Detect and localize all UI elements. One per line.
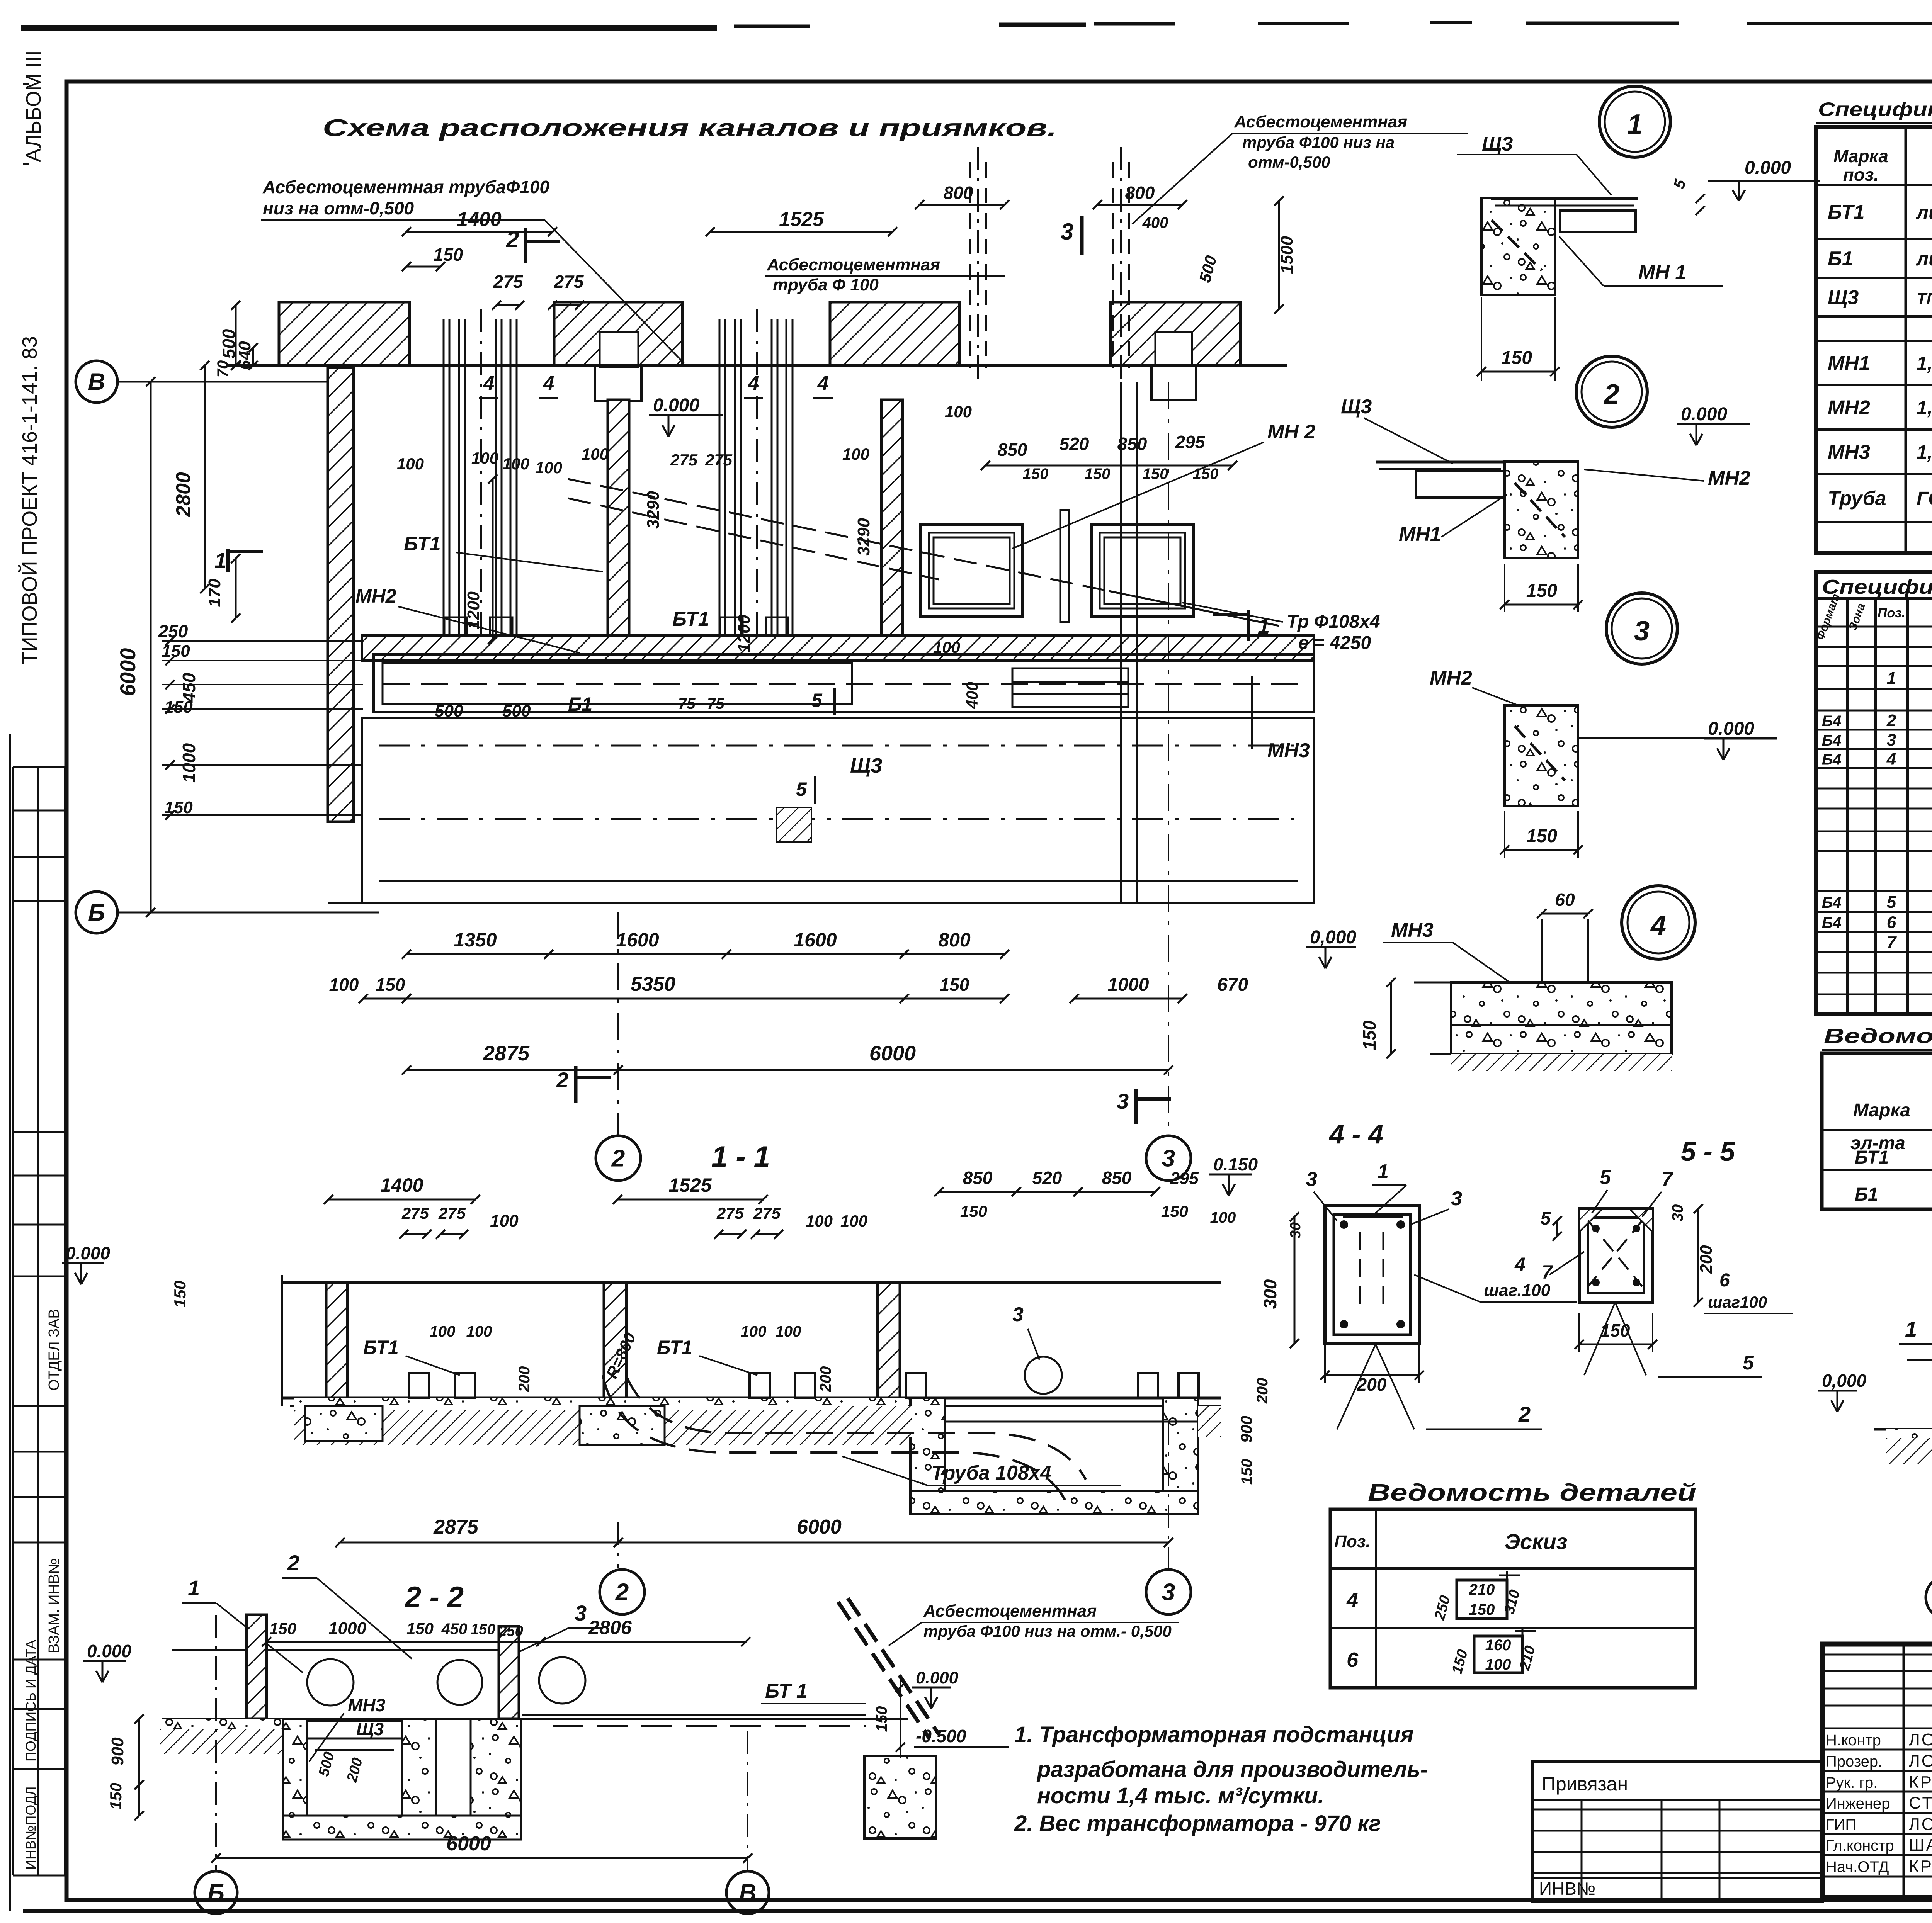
svg-text:4: 4 [817,372,829,395]
svg-text:1: 1 [188,1576,200,1600]
svg-text:850: 850 [998,440,1027,460]
svg-text:5: 5 [1541,1208,1551,1229]
svg-text:1500: 1500 [1277,236,1296,274]
svg-text:ГИП: ГИП [1826,1816,1856,1833]
svg-text:275: 275 [705,451,733,469]
svg-text:1600: 1600 [616,929,659,951]
svg-text:450: 450 [441,1621,468,1638]
svg-text:60: 60 [1555,890,1575,910]
svg-text:БТ1: БТ1 [1828,201,1865,224]
svg-text:6000: 6000 [797,1516,842,1538]
svg-text:2. Вес трансформатора - 970 к: 2. Вес трансформатора - 970 кг [1014,1811,1381,1836]
svg-text:295: 295 [1175,432,1206,452]
svg-text:295: 295 [1170,1169,1199,1188]
svg-text:ности 1,4 тыс. м³/сутки.: ности 1,4 тыс. м³/сутки. [1037,1783,1324,1808]
svg-text:300: 300 [1260,1279,1280,1309]
svg-text:6000: 6000 [446,1833,491,1855]
svg-text:2: 2 [506,226,519,252]
svg-text:2: 2 [1603,379,1619,410]
svg-text:2 - 2: 2 - 2 [404,1581,464,1614]
svg-text:Рук. гр.: Рук. гр. [1826,1774,1878,1791]
svg-text:150: 150 [1526,826,1557,846]
svg-text:100: 100 [945,403,972,421]
svg-text:Привязан: Привязан [1542,1773,1628,1795]
svg-text:Марка: Марка [1833,146,1888,166]
svg-text:1400: 1400 [380,1174,423,1196]
svg-text:МН 1: МН 1 [1638,261,1686,284]
svg-text:100: 100 [1485,1656,1511,1673]
svg-text:0.000: 0.000 [653,395,699,416]
svg-text:Б4: Б4 [1822,732,1842,749]
svg-text:520: 520 [1060,434,1089,454]
svg-text:30: 30 [1669,1204,1686,1222]
svg-text:ШАПИРО: ШАПИРО [1909,1836,1932,1855]
svg-text:МН2: МН2 [1430,667,1472,689]
svg-text:4: 4 [543,372,554,395]
svg-text:0.000: 0.000 [66,1243,111,1263]
svg-text:Труба: Труба [1828,488,1886,510]
svg-text:5350: 5350 [631,973,675,995]
svg-text:МН3: МН3 [1267,739,1310,762]
svg-text:Асбестоцементная: Асбестоцементная [1234,112,1407,131]
svg-text:Спецификация элементов к схеме: Спецификация элементов к схеме расположе… [1818,99,1932,120]
svg-text:Б1: Б1 [1855,1184,1878,1205]
svg-text:100: 100 [806,1212,833,1230]
svg-text:6000: 6000 [116,648,140,696]
svg-text:150: 150 [1600,1320,1630,1340]
svg-text:100: 100 [490,1211,519,1230]
svg-text:100: 100 [741,1323,767,1340]
svg-text:ЛОУЦКЕР: ЛОУЦКЕР [1909,1730,1932,1749]
svg-text:150: 150 [164,698,193,717]
svg-text:150: 150 [960,1202,987,1220]
svg-text:ТИПОВОЙ ПРОЕКТ 416-1-141. 83: ТИПОВОЙ ПРОЕКТ 416-1-141. 83 [18,336,41,664]
svg-text:труба Ф100 низ на: труба Ф100 низ на [1242,133,1395,151]
svg-text:Б4: Б4 [1822,713,1842,730]
svg-text:ПОДПИСЬ И ДАТА: ПОДПИСЬ И ДАТА [23,1640,39,1762]
svg-text:150: 150 [406,1619,434,1638]
svg-text:170: 170 [205,579,224,607]
svg-text:1000: 1000 [179,743,199,783]
svg-text:800: 800 [944,183,973,203]
svg-text:4: 4 [1886,750,1896,769]
svg-text:1. Трансформаторная подстанци: 1. Трансформаторная подстанция [1014,1722,1413,1747]
svg-text:Щ3: Щ3 [850,754,882,777]
svg-text:1200: 1200 [464,591,483,629]
svg-text:МН 2: МН 2 [1267,421,1315,443]
svg-text:Нач.ОТД: Нач.ОТД [1826,1858,1889,1875]
svg-text:1: 1 [1887,669,1896,688]
svg-text:850: 850 [963,1168,993,1188]
svg-text:275: 275 [401,1204,429,1222]
svg-text:100: 100 [933,638,960,656]
svg-text:БТ1: БТ1 [657,1337,692,1358]
svg-text:4: 4 [1514,1254,1526,1275]
svg-text:3: 3 [1887,730,1896,749]
svg-text:2806: 2806 [588,1617,632,1638]
svg-text:275: 275 [670,451,698,469]
svg-text:250: 250 [498,1623,523,1639]
svg-text:4: 4 [483,372,495,395]
svg-text:Б: Б [88,900,105,926]
svg-text:150: 150 [1023,465,1049,482]
svg-text:150: 150 [471,1621,495,1638]
svg-text:2: 2 [1886,711,1896,730]
svg-text:Б4: Б4 [1822,915,1842,932]
svg-text:75: 75 [678,695,696,712]
svg-text:0.000: 0.000 [1708,719,1754,739]
svg-text:1000: 1000 [328,1619,366,1638]
svg-text:отм-0,500: отм-0,500 [1248,153,1330,171]
svg-text:100: 100 [502,455,529,473]
svg-text:Щ3: Щ3 [1341,396,1372,418]
svg-text:150: 150 [1193,465,1219,482]
svg-text:100: 100 [471,449,498,467]
svg-text:5: 5 [1887,893,1896,912]
svg-text:800: 800 [1125,183,1155,203]
svg-text:5: 5 [1743,1352,1754,1374]
svg-text:500: 500 [502,702,531,720]
svg-text:2: 2 [1518,1402,1531,1426]
svg-text:БТ1: БТ1 [672,608,709,630]
svg-text:Асбестоцементная: Асбестоцементная [767,255,940,274]
svg-text:1000: 1000 [1108,975,1149,995]
svg-text:0.000: 0.000 [1745,158,1791,178]
svg-text:850: 850 [1102,1168,1132,1188]
svg-text:МН1: МН1 [1399,523,1441,545]
svg-text:275: 275 [493,272,524,292]
svg-text:3290: 3290 [854,518,873,556]
svg-text:150: 150 [107,1783,125,1810]
svg-text:1525: 1525 [779,208,824,231]
svg-text:500: 500 [435,702,463,720]
svg-text:6: 6 [1887,913,1896,932]
svg-text:МН3: МН3 [348,1695,386,1715]
svg-text:900: 900 [1237,1416,1255,1443]
svg-text:МН2: МН2 [1708,467,1750,489]
svg-text:Гл.констр: Гл.констр [1826,1837,1894,1854]
svg-text:2: 2 [556,1068,568,1092]
svg-text:3: 3 [1012,1303,1024,1326]
svg-text:1 - 1: 1 - 1 [711,1140,770,1173]
svg-text:5: 5 [796,778,807,800]
svg-text:800: 800 [938,929,971,951]
svg-text:6: 6 [1347,1648,1359,1672]
svg-text:Щ3: Щ3 [356,1719,384,1739]
svg-text:200: 200 [1357,1374,1387,1395]
svg-text:АЛЬБОМ III: АЛЬБОМ III [22,50,45,162]
svg-text:160: 160 [1485,1637,1511,1654]
svg-text:1350: 1350 [454,929,497,951]
svg-text:100: 100 [535,459,562,477]
svg-text:150: 150 [171,1281,189,1308]
svg-text:Асбестоцементная: Асбестоцементная [923,1602,1097,1621]
svg-text:150: 150 [269,1619,296,1638]
svg-text:100: 100 [466,1323,492,1340]
svg-text:1: 1 [214,548,226,572]
svg-text:шаг.100: шаг.100 [1484,1281,1551,1300]
svg-text:30: 30 [1287,1222,1304,1238]
svg-text:е = 4250: е = 4250 [1298,633,1371,653]
svg-text:Асбестоцементная трубаФ100: Асбестоцементная трубаФ100 [262,177,549,197]
svg-text:ИНВ№ПОДЛ: ИНВ№ПОДЛ [23,1786,39,1870]
svg-text:150: 150 [376,975,405,995]
svg-text:4: 4 [1650,910,1666,941]
svg-text:150: 150 [1526,581,1557,601]
svg-text:1,400-15В1.550-06: 1,400-15В1.550-06 [1917,353,1932,374]
svg-text:1: 1 [1627,109,1643,140]
svg-text:Б1: Б1 [568,693,592,715]
svg-text:шаг100: шаг100 [1708,1293,1767,1311]
svg-text:0.000: 0.000 [87,1641,132,1661]
svg-text:4: 4 [1346,1588,1358,1612]
svg-text:Б: Б [207,1880,224,1906]
svg-text:100: 100 [1210,1209,1236,1226]
svg-text:150: 150 [1143,465,1168,482]
svg-text:150: 150 [873,1706,890,1732]
svg-text:2875: 2875 [483,1042,530,1065]
svg-text:0.000: 0.000 [916,1668,959,1687]
svg-text:400: 400 [963,682,981,709]
svg-text:ЛОУЦКЕР: ЛОУЦКЕР [1909,1815,1932,1834]
svg-text:Б4: Б4 [1822,894,1842,911]
svg-text:1,400-15В.1.550-04: 1,400-15В.1.550-04 [1917,397,1932,419]
svg-text:1600: 1600 [794,929,837,951]
svg-text:МН3: МН3 [1828,441,1870,464]
svg-text:150: 150 [1085,465,1111,482]
svg-text:Б4: Б4 [1822,751,1842,768]
svg-text:6000: 6000 [869,1042,916,1065]
svg-text:МН2: МН2 [1828,397,1870,419]
svg-text:Инженер: Инженер [1826,1795,1890,1812]
svg-text:1: 1 [1378,1160,1389,1183]
svg-text:БТ1: БТ1 [363,1337,399,1358]
svg-text:2: 2 [611,1145,625,1172]
svg-text:1: 1 [1905,1317,1917,1341]
svg-text:7: 7 [1887,933,1897,952]
svg-text:ИНВ№: ИНВ№ [1539,1879,1595,1899]
svg-text:275: 275 [753,1204,781,1222]
svg-text:3: 3 [1634,616,1650,647]
svg-text:поз.: поз. [1843,165,1879,185]
svg-text:Прозер.: Прозер. [1826,1753,1882,1770]
svg-text:3: 3 [1162,1145,1175,1172]
svg-text:МН2: МН2 [355,585,396,607]
svg-text:труба Ф 100: труба Ф 100 [773,275,879,294]
svg-text:150: 150 [1501,348,1532,368]
svg-text:Поз.: Поз. [1334,1532,1370,1551]
svg-text:400: 400 [1142,214,1168,231]
svg-text:ГОСТ 8732-70: ГОСТ 8732-70 [1917,488,1932,510]
svg-text:Ведомость деталей: Ведомость деталей [1368,1480,1696,1506]
svg-text:Щ3: Щ3 [1828,287,1859,309]
svg-text:МН3: МН3 [1391,919,1434,941]
svg-text:В: В [739,1880,757,1906]
svg-text:100: 100 [840,1212,867,1230]
svg-text:Тр Ф108х4: Тр Ф108х4 [1287,612,1380,632]
svg-text:КРАСАВИН: КРАСАВИН [1909,1857,1932,1876]
svg-text:3: 3 [1117,1089,1129,1113]
svg-text:200: 200 [516,1366,533,1393]
svg-text:ВЗАМ. ИНВ№: ВЗАМ. ИНВ№ [46,1558,62,1653]
svg-text:БТ1: БТ1 [1855,1147,1889,1168]
svg-text:ЛОУЦКЕР: ЛОУЦКЕР [1909,1751,1932,1770]
svg-text:5 - 5: 5 - 5 [1681,1136,1735,1167]
svg-text:100: 100 [430,1323,456,1340]
svg-text:900: 900 [108,1737,127,1766]
svg-text:Н.контр: Н.контр [1826,1732,1881,1749]
svg-text:7: 7 [1542,1261,1553,1283]
svg-text:5: 5 [1600,1166,1611,1189]
svg-text:100: 100 [842,445,869,463]
svg-text:Эскиз: Эскиз [1505,1529,1568,1554]
svg-text:низ на отм-0,500: низ на отм-0,500 [263,198,414,218]
svg-text:100: 100 [329,975,359,995]
svg-text:150: 150 [434,245,463,265]
svg-text:200: 200 [1254,1378,1271,1404]
svg-text:100: 100 [397,455,424,473]
svg-text:275: 275 [438,1204,466,1222]
svg-text:Ведомость расхода стали на: Ведомость расхода стали на один элемент,… [1824,1024,1932,1048]
svg-text:200: 200 [817,1366,834,1393]
svg-text:МН1: МН1 [1828,352,1870,375]
svg-text:7: 7 [1662,1168,1673,1191]
svg-text:-0.500: -0.500 [916,1726,966,1746]
svg-text:0.150: 0.150 [1213,1154,1258,1174]
svg-text:Марка: Марка [1853,1100,1910,1121]
svg-text:ОТДЕЛ ЗАВ: ОТДЕЛ ЗАВ [46,1309,62,1391]
svg-text:Схема расположения каналов: Схема расположения каналов и приямков. [323,115,1057,141]
svg-text:0,000: 0,000 [1310,927,1356,948]
svg-text:1525: 1525 [668,1174,712,1196]
svg-text:850: 850 [1117,434,1147,454]
svg-text:БТ 1: БТ 1 [765,1680,808,1702]
svg-text:150: 150 [1359,1020,1379,1050]
svg-text:Щ3: Щ3 [1482,133,1513,155]
svg-text:70: 70 [214,360,231,378]
svg-text:3: 3 [1061,219,1073,245]
svg-text:75: 75 [707,695,724,712]
svg-text:ТП416-1-141.83 КЖИЩ1СБ: ТП416-1-141.83 КЖИЩ1СБ [1917,290,1932,308]
svg-text:4: 4 [748,372,759,395]
svg-text:275: 275 [716,1204,744,1222]
svg-text:1,400-15В1. 430-01: 1,400-15В1. 430-01 [1917,442,1932,463]
svg-text:150: 150 [1161,1202,1188,1220]
svg-text:3: 3 [1451,1187,1462,1210]
svg-text:3: 3 [575,1601,587,1625]
svg-text:210: 210 [1469,1581,1495,1598]
svg-text:150: 150 [940,975,969,995]
svg-text:лист 13: лист 13 [1916,248,1932,270]
svg-text:труба Ф100 низ на отм.- 0,500: труба Ф100 низ на отм.- 0,500 [923,1622,1172,1640]
svg-text:150: 150 [164,798,193,817]
svg-text:100: 100 [776,1323,801,1340]
svg-text:2: 2 [287,1551,299,1575]
svg-text:Поз.: Поз. [1878,606,1905,620]
svg-text:2: 2 [615,1579,629,1606]
svg-text:200: 200 [1697,1245,1716,1274]
svg-text:6: 6 [1719,1270,1730,1291]
svg-text:640: 640 [235,341,254,370]
svg-text:2800: 2800 [172,472,195,517]
svg-text:3290: 3290 [644,491,663,529]
svg-text:лист 13: лист 13 [1916,202,1932,223]
svg-text:1200: 1200 [735,615,753,652]
svg-text:СТРИГИНА: СТРИГИНА [1909,1794,1932,1813]
svg-text:разработана для производитель: разработана для производитель- [1036,1757,1428,1782]
svg-text:4 - 4: 4 - 4 [1328,1119,1383,1149]
svg-text:0,000: 0,000 [1822,1371,1867,1391]
svg-text:3: 3 [1162,1579,1175,1606]
svg-text:5: 5 [811,690,823,711]
svg-text:2875: 2875 [433,1516,479,1538]
svg-text:670: 670 [1217,975,1248,995]
svg-text:150: 150 [1469,1601,1495,1618]
svg-text:Б1: Б1 [1828,248,1853,270]
svg-text:В: В [88,369,105,396]
svg-text:3: 3 [1306,1168,1317,1191]
svg-text:100: 100 [582,445,609,463]
svg-text:0.000: 0.000 [1681,404,1727,425]
svg-text:Труба 108х4: Труба 108х4 [931,1462,1051,1484]
svg-text:275: 275 [554,272,584,292]
svg-text:КРАСНОВА: КРАСНОВА [1909,1773,1932,1792]
svg-text:БТ1: БТ1 [404,533,441,555]
svg-text:150: 150 [1238,1459,1255,1485]
svg-text:520: 520 [1032,1168,1062,1188]
